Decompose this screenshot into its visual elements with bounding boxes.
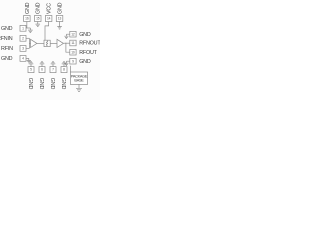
wire VCC feed from pin 14 (45, 22, 49, 41)
wire pin 3 RF input (26, 47, 29, 49)
svg-text:RFNOUT: RFNOUT (79, 41, 100, 47)
pin 13 box (56, 16, 63, 22)
svg-text:11: 11 (71, 41, 74, 45)
pin 16 box (24, 16, 31, 22)
svg-text:RFNIN: RFNIN (0, 36, 13, 42)
svg-text:GND: GND (27, 78, 33, 90)
wire input join node (29, 38, 30, 48)
pin 6 box (39, 67, 45, 73)
ground pin 12 (64, 34, 70, 38)
svg-text:14: 14 (47, 17, 51, 21)
wire A2 output to pin 11 (63, 42, 69, 44)
ground pin 9 (64, 61, 70, 65)
op-amp A1 first amplifier stage (31, 39, 37, 47)
svg-text:GND: GND (1, 26, 13, 32)
pin 8 box (61, 67, 67, 73)
svg-text:GND: GND (60, 78, 66, 90)
svg-text:GND: GND (36, 2, 42, 14)
svg-text:16: 16 (25, 17, 29, 21)
wire A1 to matching network (37, 42, 44, 44)
svg-text:GND: GND (79, 59, 91, 65)
svg-text:15: 15 (36, 17, 40, 21)
pin 11 box (70, 40, 76, 46)
ground pin 4 (26, 58, 31, 62)
pin 3 box (20, 46, 26, 52)
wire pin1 to ground node (26, 27, 30, 29)
svg-text:RFOUT: RFOUT (79, 50, 97, 56)
svg-text:10: 10 (71, 50, 75, 54)
pin 14 box (45, 16, 52, 22)
wire matching network to A2 (50, 42, 57, 44)
ground pin 6 (40, 62, 45, 67)
ground package base (76, 84, 82, 91)
pin 2 box (20, 35, 26, 41)
svg-text:RFIN: RFIN (1, 46, 13, 52)
svg-text:GND: GND (38, 78, 44, 90)
pin 5 box (28, 67, 34, 73)
node output junction (65, 43, 66, 44)
wire pin 2 input (26, 37, 29, 39)
ground pin 7 (51, 62, 56, 67)
wire pin16 stub down (26, 22, 28, 29)
op-amp A2 second amplifier stage (57, 39, 63, 47)
inductor L1 matching network box (44, 40, 50, 46)
ground GND node pins 1/16 (28, 28, 33, 33)
pin 1 box (20, 25, 26, 31)
package base box (70, 72, 87, 84)
wire output branch to pin 10 (66, 43, 70, 52)
pin 12 box (70, 31, 76, 37)
ground pin 13 (57, 22, 62, 30)
svg-text:VCC: VCC (47, 3, 53, 14)
svg-text:BASE: BASE (74, 79, 84, 83)
svg-text:GND: GND (79, 32, 91, 38)
svg-text:GND: GND (49, 78, 55, 90)
pin 10 box (70, 49, 76, 55)
ground pin 15 (35, 22, 40, 27)
ground pin 5 (29, 62, 34, 67)
svg-text:GND: GND (57, 2, 63, 14)
pin 9 box (70, 58, 76, 64)
wire pin9 region to package base (69, 66, 71, 72)
pin 15 box (35, 16, 42, 22)
svg-text:12: 12 (71, 32, 75, 36)
svg-text:GND: GND (25, 2, 31, 14)
pin 7 box (50, 67, 56, 73)
svg-text:13: 13 (58, 17, 62, 21)
pin 4 box (20, 56, 26, 62)
ground pin 8 (62, 62, 67, 67)
svg-text:GND: GND (1, 56, 13, 62)
